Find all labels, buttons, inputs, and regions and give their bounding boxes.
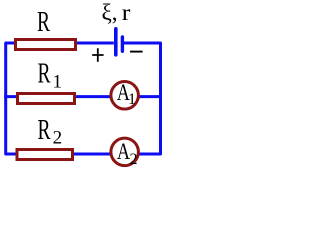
svg-text:R: R [38,115,51,146]
svg-text:ξ,: ξ, [102,0,118,25]
resistor R [16,40,76,50]
battery U1 short plate (-) [121,37,124,51]
ammeter A2 [111,138,138,166]
resistor R1 [18,94,75,104]
wire: outer loop (top-left segment, left vertical, bottom wire, right vertical, top-right segment) [6,43,161,154]
battery plus sign [92,48,103,62]
svg-text:R: R [37,7,50,38]
resistor R2 [17,150,73,160]
svg-text:r: r [122,0,131,25]
svg-text:A: A [117,139,130,164]
ammeter A1 [111,82,138,110]
svg-text:2: 2 [130,151,138,168]
battery minus sign [130,51,143,53]
svg-text:1: 1 [128,91,136,108]
battery U1 long plate (+) [114,29,118,55]
svg-text:2: 2 [53,128,63,149]
svg-text:R: R [38,59,51,90]
wire: middle branch [4,95,160,98]
svg-text:1: 1 [53,71,63,92]
